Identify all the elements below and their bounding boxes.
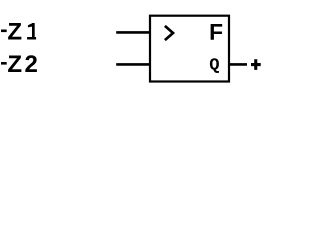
- pin label F: [211, 24, 223, 40]
- wire Q output: [229, 63, 247, 66]
- pin label Q: [210, 58, 219, 73]
- clock input symbol >: [165, 26, 173, 40]
- net label -Z1: [1, 23, 36, 40]
- wire Z2 input: [116, 63, 151, 66]
- wire Z1 input: [116, 31, 151, 34]
- net label -Z2: [1, 55, 37, 72]
- function block U1 box: [150, 16, 229, 82]
- plus terminal: [251, 59, 261, 70]
